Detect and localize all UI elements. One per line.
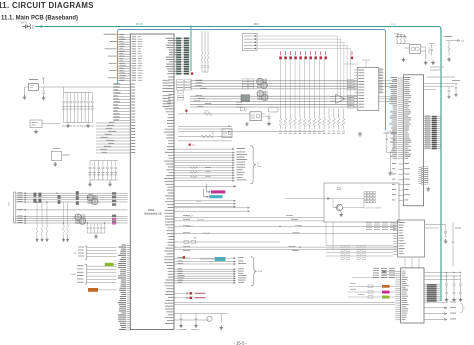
resistor R30x loop [201, 132, 213, 138]
red testpoints pair with labels [189, 292, 192, 294]
svg-text:B0.6: B0.6 [254, 23, 260, 26]
svg-text:Baseband LSI: Baseband LSI [145, 212, 162, 216]
tiny part [241, 108, 245, 111]
resistor array label stacks [242, 79, 247, 81]
op-amp/buffer triangle [336, 94, 345, 103]
IC X101 (VCO box, left) [29, 84, 39, 91]
cyan tag [204, 189, 208, 197]
connector SP101 (speaker bracket) [85, 246, 87, 260]
antenna ANT symbol [23, 25, 30, 29]
svg-text:VBAT: VBAT [394, 33, 400, 36]
bracket: to SIM [251, 257, 257, 286]
wire bus: SIM/camera rows with arrows [175, 258, 235, 283]
audio out circuit below U101 [175, 314, 229, 324]
wire band 2 [16, 210, 128, 223]
svg-text:- 15-5 -: - 15-5 - [234, 341, 248, 345]
component box B101 [30, 120, 42, 128]
connector pins with arrows to blue net [379, 70, 384, 93]
wires from J2 bending down to bus [256, 36, 350, 107]
varistor stacks [112, 192, 116, 195]
wire bus: long rows to right side [175, 217, 325, 221]
connector CAM101 (bracket) [85, 265, 87, 285]
component grid 4x4 [364, 192, 366, 194]
rows from U402 to caps [424, 272, 460, 279]
keypad row with resistors [175, 241, 281, 243]
wire bus: bottom long rows [175, 303, 396, 305]
colored tag: orange (right) [382, 285, 390, 288]
IC U402 (audio/charging) [401, 268, 424, 323]
capacitor C405 [429, 44, 435, 56]
svg-text:CAM: CAM [71, 273, 76, 276]
label grid above U401 [366, 223, 396, 230]
wire band 1 (audio lines) [16, 193, 128, 202]
wires U301 top right to supply [424, 84, 441, 90]
IC U101 left pins (upper-middle stubs) [113, 85, 130, 121]
small components left of tags [348, 272, 395, 297]
connector J101 (left bracket) [14, 192, 16, 223]
testpoint TP (red) near header [191, 72, 193, 74]
colored tag: green (right) [382, 296, 390, 299]
svg-text:Mem: Mem [257, 166, 262, 168]
transistor Q301 [336, 204, 342, 210]
pin block to green net [424, 117, 441, 149]
IC U101 left pin block (bottom section) [127, 246, 131, 330]
label boxes entering U201 [348, 80, 355, 82]
colored tag: green (LED) [105, 263, 114, 267]
svg-text:11.1. Main PCB (Baseband): 11.1. Main PCB (Baseband) [1, 16, 78, 22]
svg-text:11. CIRCUIT DIAGRAMS: 11. CIRCUIT DIAGRAMS [0, 1, 94, 10]
capacitor C301 [268, 114, 271, 121]
sub-circuit: TCXO block [324, 183, 399, 222]
crystal X302 [222, 129, 232, 138]
wires from tags to U402 [374, 286, 395, 297]
capacitor chain C401 C402 [385, 134, 395, 153]
capacitor bank C101-C108 [62, 93, 94, 123]
resistor row R201-R214 [279, 109, 345, 130]
testpoint red at U101 lower right [183, 256, 186, 259]
wires from testpoints down to bus [281, 59, 325, 108]
component box B102 with ground [51, 151, 61, 160]
transistor circuit Q401 (top right) [396, 35, 405, 44]
wires U401 to U402 [405, 257, 419, 268]
wire with arrow (row y186.3) [175, 185, 237, 187]
cyan tag lower [215, 257, 226, 261]
IC U101 inner labels along right edge (top) [166, 38, 177, 73]
small box [337, 188, 340, 190]
IC U101 right edge pin stubs and inner labels [164, 77, 174, 324]
svg-text:VC-TCXO 26.000MHz: VC-TCXO 26.000MHz [362, 208, 382, 210]
filter array FL2 (scribble blob) [257, 90, 264, 96]
resistor R301 [204, 112, 212, 115]
wire to crystal [178, 112, 250, 114]
IC U401 [398, 220, 425, 257]
IC U301 left pins (dense) [398, 78, 404, 159]
IC U101 left pins (middle wires) [96, 123, 130, 153]
caps right of U401 [425, 222, 455, 266]
inductor/bead [207, 316, 212, 321]
wire: green branch down connector column [190, 27, 192, 72]
svg-text:SIM: SIM [258, 271, 262, 273]
resistor pairs below band [36, 202, 69, 238]
capacitor chains right of U402 [445, 278, 462, 297]
U402 right pin block with arrows [424, 285, 440, 301]
components right of green net (top) [441, 84, 458, 94]
IC U201 (interface) [357, 68, 379, 111]
arrow + magenta tag (KEY B/L) [206, 184, 208, 192]
svg-text:ANT1: ANT1 [21, 22, 28, 25]
resistor stack R7xx hanging from blue net [201, 31, 209, 72]
lower pin label block [419, 168, 422, 184]
crystal X301 32.768kHz [250, 112, 261, 121]
testpoint TP211 [351, 57, 353, 60]
label boxes on bus rows [177, 80, 184, 82]
testpoint (red) on 32k line [185, 110, 187, 112]
IC U301 left pins (sparse lower) [399, 164, 404, 200]
filter array FL1 (scribble blob) [256, 78, 263, 84]
wire: main antenna net (teal) across top, down right side [35, 27, 441, 302]
testpoints TP201-TP210 (red row) [279, 56, 282, 59]
wires from TCXO area down to U401 [326, 246, 393, 257]
colored tag: magenta (right) [382, 291, 390, 294]
connector J1 board-to-board header (dense band) [174, 38, 189, 75]
small connector box lower [269, 107, 279, 112]
wire bus: data lines upper [190, 81, 357, 89]
testpoint (red) SLEEPCLK [189, 144, 191, 146]
ferrite beads FB101 FB102 [58, 195, 61, 199]
component block on bus [241, 95, 250, 102]
wire: TCXO enable with arrow [285, 197, 330, 199]
filter FL102 (scribble blob) [75, 214, 82, 220]
wire bus: UART rows [175, 201, 236, 207]
ferrite beads FB100 set [33, 193, 36, 197]
IC U301 (power management) [403, 75, 423, 206]
label block left of U402 top [373, 268, 395, 277]
resistors on those wires [341, 246, 344, 248]
bracket: to memory [250, 146, 256, 184]
wire bus: UART2 rows [175, 208, 251, 211]
+B supply arrow [446, 40, 460, 56]
svg-text:CN1: CN1 [9, 201, 11, 206]
connector J2 (5-pin, top middle) [243, 34, 258, 51]
svg-text:RF_IN: RF_IN [136, 23, 143, 26]
svg-text:U101: U101 [148, 208, 155, 212]
capacitor bank C120s [89, 161, 118, 181]
wire bus: continuing to IC U301 [379, 81, 398, 102]
ground [358, 132, 362, 137]
bracket (to battery) [461, 303, 465, 312]
wire rows below crystal [178, 126, 232, 141]
IC U101 left pins (top dense section) with net labels [118, 35, 130, 81]
IC U101 Baseband LSI body [130, 34, 174, 330]
row from U402 right edge [424, 302, 448, 304]
label rows right of U301 top [427, 67, 455, 77]
tiny magenta labels at far left of U101 [112, 218, 116, 220]
wire bus: data lines lower [190, 96, 357, 107]
junction dots on bands [56, 193, 57, 194]
filter FL101 (scribble blob) [87, 194, 94, 200]
colored tag: orange (VIB) [88, 288, 98, 292]
wire bus: memory interface rows [175, 149, 234, 180]
wire: blue net across top [118, 30, 386, 131]
svg-text:+B: +B [461, 40, 464, 43]
capacitor array below band 2 [86, 223, 105, 233]
U402 output arrows [424, 307, 447, 321]
